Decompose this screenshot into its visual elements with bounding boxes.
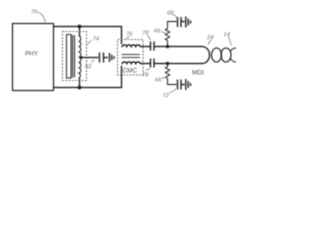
svg-text:78: 78	[142, 73, 149, 79]
svg-text:66: 66	[155, 78, 162, 84]
svg-text:MDI: MDI	[192, 70, 204, 77]
svg-text:14: 14	[224, 32, 230, 38]
svg-text:76: 76	[126, 32, 133, 38]
svg-text:CMC: CMC	[123, 68, 138, 75]
svg-text:24: 24	[206, 35, 213, 41]
svg-text:70: 70	[31, 10, 38, 16]
svg-text:62: 62	[85, 64, 92, 70]
svg-text:78: 78	[142, 31, 149, 37]
svg-text:68: 68	[167, 11, 174, 17]
svg-text:72: 72	[163, 93, 170, 99]
svg-text:PHY: PHY	[25, 51, 39, 58]
svg-text:66: 66	[154, 29, 161, 35]
svg-text:74: 74	[93, 37, 99, 43]
